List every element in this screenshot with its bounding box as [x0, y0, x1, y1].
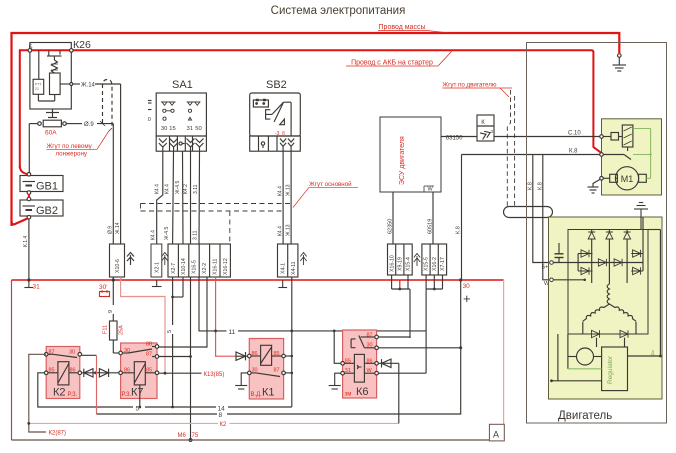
wire: провод с АКБ на стартер (red second)	[20, 50, 602, 168]
svg-text:К1: К1	[262, 387, 275, 399]
svg-text:85: 85	[146, 368, 152, 374]
svg-text:31: 31	[345, 368, 351, 374]
svg-text:Ж.13: Ж.13	[286, 224, 292, 236]
svg-text:11: 11	[229, 329, 236, 336]
svg-text:Ø.9: Ø.9	[84, 122, 94, 128]
red link GB2- to mass wire	[12, 218, 29, 224]
svg-text:Х9-19: Х9-19	[398, 257, 404, 271]
svg-text:Ж.14: Ж.14	[115, 222, 121, 234]
wire O.9 vertical	[112, 124, 114, 280]
svg-text:87: 87	[146, 352, 152, 358]
connector X10-6	[110, 244, 125, 277]
svg-text:GB1: GB1	[36, 181, 58, 193]
wire X2-2 down to 11	[199, 277, 426, 331]
svg-text:Regulator: Regulator	[607, 355, 614, 384]
red link GB1- to GB2+	[28, 194, 30, 198]
svg-text:Х2-7: Х2-7	[171, 263, 177, 274]
wire C.10 connector K to M1	[494, 136, 602, 138]
wire GB down to 31	[28, 219, 30, 280]
engine outer frame	[527, 43, 667, 424]
K6-W wire to ECU group2	[378, 372, 426, 374]
svg-text:М1: М1	[621, 174, 634, 184]
K6-86 diode to K2 line	[378, 359, 398, 367]
svg-text:ЭСУ двигателя: ЭСУ двигателя	[399, 136, 406, 185]
svg-text:0: 0	[148, 117, 151, 123]
svg-text:К4.4: К4.4	[165, 184, 171, 194]
svg-text:К4.4: К4.4	[278, 226, 284, 236]
wire: K26 right pin to vertical	[73, 83, 80, 85]
red bus right leg down to A	[503, 280, 505, 424]
svg-text:К4.4: К4.4	[278, 186, 284, 196]
phase columns	[578, 217, 643, 284]
junction 30 right	[459, 278, 462, 281]
svg-text:3.11: 3.11	[193, 230, 199, 240]
K.8 wires to alternator	[533, 155, 550, 280]
svg-text:9: 9	[108, 310, 114, 313]
svg-text:Двигатель: Двигатель	[558, 410, 612, 422]
red wire from K2-30 down to wire 8	[96, 356, 98, 414]
wire K7-87 to X16-5	[157, 356, 191, 358]
wire K.8 horizontal to M1	[462, 154, 602, 156]
wire Ж.14 vertical	[120, 84, 122, 280]
svg-text:Х15-4: Х15-4	[406, 257, 412, 271]
arrow between ECU connector groups	[414, 254, 420, 267]
svg-text:Х4-1: Х4-1	[281, 263, 287, 274]
svg-text:30: 30	[252, 368, 258, 374]
svg-text:86: 86	[367, 358, 373, 364]
svg-text:зм: зм	[345, 392, 352, 398]
label Жгут по левому лонжерону	[47, 132, 109, 158]
label Жгут основной	[293, 181, 358, 208]
svg-text:85: 85	[345, 358, 351, 364]
fuse 60A	[29, 120, 113, 127]
SA1 plug chevrons	[159, 139, 204, 152]
group2 pins merge below bus	[426, 275, 442, 373]
wire X16-11 red down to K1 diode	[216, 277, 237, 356]
ground 31	[24, 280, 33, 288]
wire 8	[82, 280, 461, 414]
svg-text:88: 88	[146, 342, 152, 348]
battery GB1	[20, 173, 63, 195]
svg-text:Жгут по двигателю: Жгут по двигателю	[442, 82, 497, 89]
svg-text:Х7-17: Х7-17	[440, 257, 446, 271]
svg-text:87: 87	[367, 333, 373, 339]
junction GB/31	[27, 278, 30, 281]
svg-text:30: 30	[367, 343, 373, 349]
harness stadium loop	[504, 207, 553, 218]
connector group X2-7 X10-14 X16-5 X2-2 X16-11 X16-12	[168, 244, 230, 277]
svg-text:М6: М6	[178, 433, 187, 439]
svg-text:85: 85	[274, 351, 280, 357]
wire 5 bottom from K2-85	[38, 373, 292, 407]
connector group X15-5 X16-2 X7-17	[422, 244, 447, 275]
svg-text:б: б	[282, 131, 285, 137]
relay K2	[46, 347, 80, 399]
svg-text:Ж-4.5: Ж-4.5	[175, 181, 181, 194]
svg-text:30': 30'	[99, 284, 107, 291]
ground (top right, масса)	[613, 54, 627, 71]
svg-text:Система электропитания: Система электропитания	[271, 5, 406, 17]
plug arrow after X10-6	[127, 253, 134, 266]
SB2 battery pictogram	[253, 100, 268, 107]
wire: fuse to GB1	[28, 124, 30, 173]
alternator top ground	[634, 203, 648, 230]
ground under X2-1	[152, 280, 162, 287]
relay K6	[343, 330, 377, 398]
svg-text:Р.З.: Р.З.	[122, 392, 132, 398]
buses	[553, 263, 643, 280]
svg-text:21: 21	[35, 87, 39, 91]
svg-text:Х10-14: Х10-14	[181, 258, 187, 275]
svg-text:К4.4: К4.4	[155, 184, 161, 194]
svg-text:SA1: SA1	[172, 79, 193, 91]
svg-text:Ø.9: Ø.9	[108, 226, 114, 234]
svg-text:86: 86	[124, 368, 130, 374]
connector X4-1 X4-11	[278, 244, 298, 277]
wire X10-14 down short link	[173, 277, 183, 297]
svg-text:К4.4: К4.4	[151, 230, 157, 240]
relay K1	[249, 339, 283, 400]
wire K13(85) from K7-85	[157, 372, 202, 374]
plug arrow after X4-11	[300, 253, 306, 266]
bottom diodes	[589, 330, 632, 337]
svg-text:W: W	[367, 368, 373, 374]
svg-text:Х16-5: Х16-5	[192, 260, 198, 274]
red bus 30/31	[12, 279, 504, 281]
svg-text:К.8: К.8	[569, 149, 578, 155]
battery GB2	[20, 197, 63, 219]
SB2 switch contact	[266, 102, 292, 136]
label: Провод с АКБ на стартер	[346, 51, 452, 67]
svg-text:3.11: 3.11	[193, 184, 199, 194]
field diodes (3 up)	[588, 232, 630, 239]
label: Провод массы	[378, 24, 449, 33]
svg-text:Х10-6: Х10-6	[115, 259, 121, 273]
K6-30 wire right to junction	[378, 347, 460, 349]
ECU block ЭСУ двигателя	[380, 117, 441, 192]
svg-text:К2: К2	[53, 387, 66, 399]
wire K.8 vertical	[461, 155, 463, 281]
M1 ground	[588, 180, 600, 194]
SA1 contacts group 1	[161, 102, 176, 120]
svg-text:60519: 60519	[428, 219, 434, 234]
group1 pins merge below bus	[392, 275, 410, 338]
svg-text:К4.2: К4.2	[183, 184, 189, 194]
mid vertical: F11 branch wire 9	[110, 280, 120, 353]
solenoid	[603, 136, 611, 138]
svg-text:лонжерону: лонжерону	[56, 151, 88, 158]
svg-text:15: 15	[169, 126, 175, 132]
wire 63150 ECU to connector K	[441, 136, 477, 138]
K1 input diode	[236, 352, 248, 360]
svg-text:87: 87	[274, 368, 280, 374]
svg-text:Х4-11: Х4-11	[291, 261, 297, 275]
stator windings	[583, 284, 636, 334]
svg-text:Х2-2: Х2-2	[202, 263, 208, 274]
left frame leg	[11, 280, 13, 440]
svg-text:87: 87	[49, 350, 55, 356]
svg-text:К.8: К.8	[456, 226, 462, 234]
svg-text:SB2: SB2	[266, 79, 287, 91]
svg-text:25А: 25А	[119, 325, 125, 335]
SA1 position marks II I 0	[148, 101, 152, 110]
svg-text:GB2: GB2	[36, 205, 58, 217]
svg-text:Х16-11: Х16-11	[212, 259, 218, 275]
K2 diodes to K7	[82, 369, 121, 377]
svg-text:30: 30	[463, 283, 471, 290]
wire: провод массы (red top)	[12, 33, 620, 226]
svg-text:8: 8	[219, 412, 223, 419]
SB2 wires down	[282, 151, 284, 244]
red link GB1+ riser	[20, 166, 28, 174]
K6-87 wire to ECU group1	[378, 337, 410, 338]
M1 green internals	[633, 129, 651, 179]
svg-text:30: 30	[69, 350, 75, 356]
starter M1 block	[602, 119, 662, 195]
svg-text:Ж.14: Ж.14	[81, 83, 96, 89]
K6-85 wire up to 11	[334, 331, 341, 363]
connector K box	[477, 115, 494, 141]
alternator green block	[549, 217, 663, 399]
svg-text:50: 50	[195, 126, 201, 132]
rectifier inner box	[568, 230, 648, 335]
svg-text:К.1.4: К.1.4	[23, 236, 29, 247]
svg-text:С.10: С.10	[568, 131, 581, 137]
SA1 wires down	[157, 151, 200, 244]
junction 30' + battery icon	[112, 278, 115, 281]
svg-text:К7: К7	[131, 387, 144, 399]
wire X16-5 down long to M6	[190, 277, 192, 440]
svg-text:86: 86	[252, 351, 258, 357]
ignition switch SA1	[156, 93, 206, 151]
K6-31 ground	[329, 373, 341, 389]
label Жгут по двигателю	[442, 82, 512, 98]
svg-text:60А: 60А	[45, 130, 57, 137]
M1 motor circle	[615, 167, 638, 190]
dashed engine harness verticals	[507, 90, 514, 206]
svg-text:Р.З.: Р.З.	[68, 392, 78, 398]
svg-text:Б+: Б+	[542, 265, 549, 271]
svg-text:Ж.13: Ж.13	[286, 184, 292, 196]
svg-text:В.Д.: В.Д.	[251, 392, 263, 398]
svg-text:РТТ: РТТ	[35, 83, 42, 87]
relay K7	[121, 343, 157, 399]
switch SB2	[250, 93, 301, 151]
plug arrow	[162, 253, 168, 266]
SA1 contacts group 2	[187, 102, 201, 120]
svg-text:К2(87): К2(87)	[49, 431, 67, 437]
svg-text:Х16-10: Х16-10	[389, 255, 395, 272]
svg-text:5: 5	[167, 330, 173, 333]
K7 coil bottom to wire5	[139, 385, 141, 407]
wire K2 (pink) bottom	[29, 422, 399, 424]
bridge diodes	[578, 250, 643, 275]
wire X2-7 (5) down	[172, 277, 174, 407]
svg-text:Провод массы: Провод массы	[379, 24, 426, 31]
svg-text:-3: -3	[275, 131, 280, 137]
svg-text:А: А	[493, 430, 499, 440]
svg-text:F11: F11	[103, 325, 109, 334]
alternator terminals	[550, 261, 554, 265]
svg-text:Ж-4.5: Ж-4.5	[164, 227, 170, 240]
connector group X16-10 X9-19 X15-4	[388, 244, 413, 275]
box A	[489, 424, 504, 441]
pink wire Ж.14 to K13(85)	[121, 277, 165, 373]
dashed harness lines SA1-SB2	[141, 204, 292, 245]
svg-text:К6: К6	[356, 386, 369, 398]
harness loop dashed (left)	[103, 80, 113, 129]
SB2 plug chevrons	[261, 139, 294, 152]
svg-text:Х16-12: Х16-12	[223, 258, 229, 275]
capacitor	[555, 243, 564, 263]
svg-text:86: 86	[70, 368, 76, 374]
ground under X4-1	[278, 280, 287, 288]
svg-text:К2: К2	[220, 422, 227, 428]
svg-text:Х16-2: Х16-2	[432, 257, 438, 271]
svg-text:62350: 62350	[388, 219, 394, 234]
X4-11 wire down to K1-85 and 14	[285, 277, 291, 407]
svg-text:+: +	[463, 291, 471, 306]
svg-text:30: 30	[124, 348, 130, 354]
wire K2(87) stub	[29, 354, 46, 432]
svg-text:К.8: К.8	[537, 182, 543, 190]
svg-text:Х15-5: Х15-5	[424, 257, 430, 271]
svg-text:63150: 63150	[446, 136, 463, 142]
svg-text:75: 75	[192, 433, 199, 439]
ECU bottom wires 62350 / 60519	[392, 192, 394, 244]
connector X2-1	[151, 244, 162, 277]
svg-text:Х2-1: Х2-1	[154, 262, 160, 273]
svg-text:Б: Б	[29, 45, 33, 51]
svg-text:W: W	[428, 187, 434, 193]
svg-text:К26: К26	[73, 39, 91, 51]
K1-30 ground	[235, 373, 247, 389]
bottom frame line	[12, 439, 490, 441]
wire X2-2b down to K7-88	[157, 277, 207, 347]
svg-text:К: К	[481, 120, 485, 126]
svg-text:85: 85	[49, 368, 55, 374]
svg-text:31: 31	[33, 284, 41, 291]
rotor and regulator	[552, 230, 661, 391]
relay K26	[28, 43, 73, 110]
svg-text:Провод с АКБ на стартер: Провод с АКБ на стартер	[351, 60, 433, 67]
chassis symbol below K26	[46, 109, 59, 118]
svg-text:31: 31	[187, 126, 193, 132]
svg-text:К.8: К.8	[527, 182, 533, 190]
svg-text:К13(85): К13(85)	[204, 372, 225, 378]
svg-text:30: 30	[161, 126, 167, 132]
